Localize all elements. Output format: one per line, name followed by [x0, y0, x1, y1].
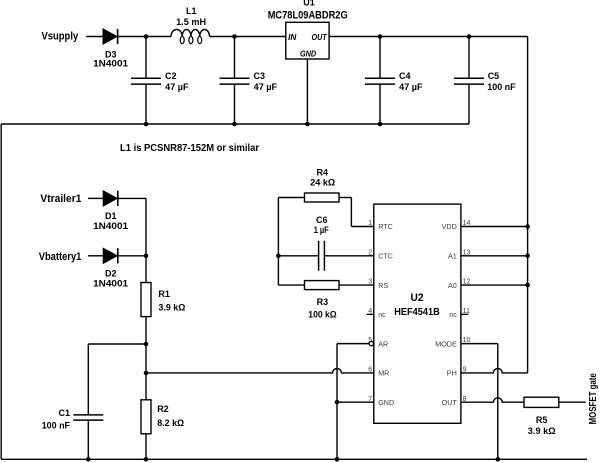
label C3 47 uF	[254, 71, 278, 92]
inductor L1	[171, 29, 210, 43]
svg-text:L1 is PCSNR87-152M or similar: L1 is PCSNR87-152M or similar	[120, 142, 259, 154]
junction U1 GND to ground rail	[305, 122, 310, 127]
junction MODE vertical to ground rail	[496, 457, 501, 462]
wire Vtrailer1 to D1	[88, 197, 103, 199]
wire C1 top horizontal	[88, 343, 146, 345]
resistor R5	[524, 397, 559, 407]
wire OUT pin 8 to R5 with hop	[461, 398, 524, 402]
svg-text:AR: AR	[378, 339, 388, 348]
wire AR vertical down to ground rail	[336, 344, 338, 460]
voltage regulator U1 body	[286, 22, 329, 59]
wire left vertical to R3	[278, 284, 304, 286]
label C6 1 uF	[314, 215, 329, 235]
junction VDD/right rail	[525, 224, 530, 229]
svg-text:R4: R4	[317, 167, 329, 177]
svg-text:C5: C5	[488, 71, 500, 81]
junction A1/right rail	[525, 253, 530, 258]
svg-text:L1: L1	[186, 6, 197, 16]
junction A0/right rail	[525, 283, 530, 288]
wire D2 cathode to junction	[118, 255, 146, 257]
diode D2	[103, 248, 118, 263]
wire node D to right corner	[469, 36, 528, 38]
svg-text:U1: U1	[303, 0, 315, 8]
label R1 3.9 kOhm	[158, 289, 185, 312]
svg-text:R5: R5	[536, 415, 548, 425]
label R4 24 kOhm	[310, 167, 335, 187]
svg-text:2: 2	[368, 249, 372, 256]
wire node C to node D	[380, 36, 469, 38]
junction D1/D2 node	[144, 254, 149, 259]
capacitor C5	[454, 37, 484, 125]
svg-text:PH: PH	[447, 369, 457, 378]
junction node B (L1/C3/U1 IN)	[232, 34, 237, 39]
capacitor C6	[319, 241, 325, 271]
svg-text:1N4001: 1N4001	[93, 278, 128, 288]
svg-text:1N4001: 1N4001	[93, 59, 128, 69]
wire Vbattery1 to D2	[88, 255, 103, 257]
junction C3 to ground rail	[232, 122, 237, 127]
svg-text:RS: RS	[378, 281, 388, 290]
svg-text:47 µF: 47 µF	[254, 82, 278, 92]
svg-text:100 nF: 100 nF	[42, 420, 71, 430]
resistor R2	[141, 400, 151, 434]
svg-text:OUT: OUT	[312, 33, 328, 42]
svg-text:nc: nc	[378, 310, 386, 319]
junction C4 to ground rail	[378, 122, 383, 127]
diode D1	[103, 191, 118, 206]
resistor R4	[305, 193, 340, 202]
junction AR/GND wire	[335, 400, 340, 405]
svg-text:IN: IN	[288, 33, 296, 42]
label D2 1N4001	[93, 269, 128, 289]
wire GND pin 7	[337, 401, 374, 403]
junction C1 to ground rail	[86, 457, 91, 462]
svg-text:C1: C1	[58, 408, 70, 418]
ground rail left vertical	[0, 124, 2, 459]
capacitor C3	[220, 37, 250, 125]
resistor R3	[305, 281, 340, 290]
wire U1 OUT to node C	[329, 36, 380, 38]
wire R2 bottom to ground rail	[145, 434, 147, 460]
svg-text:OUT: OUT	[442, 398, 458, 407]
label C5 100 nF	[487, 71, 516, 92]
wire PH pin 9 to right rail with hop	[461, 369, 528, 373]
svg-text:100 nF: 100 nF	[487, 82, 516, 92]
svg-text:C3: C3	[254, 71, 266, 81]
ground rail upper horizontal	[1, 123, 469, 125]
svg-text:1N4001: 1N4001	[93, 221, 128, 231]
nc stub pin 11	[461, 313, 468, 315]
wire L1 to node B	[210, 36, 235, 38]
wire node A to L1	[146, 36, 171, 38]
junction R1/R2/MR node	[144, 371, 149, 376]
svg-text:MOSFET gate: MOSFET gate	[588, 373, 599, 425]
junction R1/C1 node	[144, 342, 149, 347]
svg-text:Vtrailer1: Vtrailer1	[40, 193, 81, 205]
svg-text:Vsupply: Vsupply	[42, 30, 79, 42]
label L1 1.5 mH	[176, 6, 206, 27]
label D3 1N4001	[93, 50, 128, 69]
svg-text:R2: R2	[157, 404, 169, 414]
svg-text:CTC: CTC	[378, 251, 393, 260]
svg-text:1 µF: 1 µF	[314, 225, 329, 235]
capacitor C1	[73, 344, 103, 459]
wire R4 left vertical	[277, 198, 279, 286]
junction CTC tee on left vertical	[276, 253, 281, 258]
wire R4 corner down to RTC	[350, 198, 352, 227]
wire C6 to CTC pin 2	[324, 255, 373, 257]
svg-text:HEF4541B: HEF4541B	[394, 306, 440, 318]
svg-text:GND: GND	[378, 398, 394, 407]
junction node D (C5 top)	[467, 34, 472, 39]
svg-text:D1: D1	[105, 211, 117, 221]
capacitor C2	[131, 37, 161, 125]
wire R5 to MOSFET gate terminal	[559, 401, 586, 403]
diode D3	[103, 29, 118, 44]
svg-text:C2: C2	[165, 71, 177, 81]
IC U2 body	[374, 204, 461, 423]
label R5 3.9 kOhm	[528, 415, 556, 436]
label R3 100 kOhm	[308, 297, 336, 320]
svg-text:C4: C4	[399, 71, 411, 81]
svg-text:3.9 kΩ: 3.9 kΩ	[158, 302, 185, 312]
label C2 47 uF	[165, 71, 189, 92]
svg-text:8.2 kΩ: 8.2 kΩ	[157, 418, 184, 428]
wire C1 tee down to MR tee	[145, 344, 147, 373]
junction node A (D3/C2/L1)	[144, 34, 149, 39]
svg-text:3: 3	[368, 279, 372, 286]
svg-text:1.5 mH: 1.5 mH	[176, 17, 206, 27]
label D1 1N4001	[93, 211, 128, 231]
label C4 47 uF	[399, 71, 423, 92]
wire MR pin 6 from R1/R2 node with hop	[146, 368, 374, 372]
wire MODE vertical down to ground rail	[497, 344, 499, 460]
wire MODE pin 10 to corner	[461, 343, 498, 345]
svg-text:100 kΩ: 100 kΩ	[308, 310, 336, 320]
capacitor C4	[365, 37, 395, 125]
svg-text:VDD: VDD	[442, 222, 457, 231]
wire A0 pin 12 to right rail	[461, 284, 528, 286]
wire R1 bottom to C1 tee	[145, 317, 147, 344]
svg-text:1: 1	[368, 220, 372, 227]
svg-text:MC78L09ABDR2G: MC78L09ABDR2G	[268, 9, 348, 21]
wire CTC left segment	[278, 255, 318, 257]
wire MR tee down to R2	[145, 373, 147, 400]
svg-text:47 µF: 47 µF	[399, 82, 423, 92]
wire D1 corner down to Vbattery junction	[145, 198, 147, 255]
wire A1 pin 13 to right rail	[461, 255, 528, 257]
junction R2 to ground rail	[144, 457, 149, 462]
svg-text:MR: MR	[378, 369, 389, 378]
wire D1 cathode to corner	[118, 197, 146, 199]
ground rail bottom horizontal	[1, 458, 587, 460]
wire Vsupply to D3 anode	[86, 36, 103, 38]
svg-text:A0: A0	[448, 281, 457, 290]
junction node C (C4 top)	[378, 34, 383, 39]
wire D3 cathode to node A	[118, 36, 146, 38]
svg-text:R1: R1	[158, 289, 170, 299]
svg-text:D2: D2	[105, 269, 117, 279]
svg-text:A1: A1	[448, 251, 457, 260]
wire left vertical to R4	[278, 197, 304, 199]
svg-text:RTC: RTC	[378, 222, 393, 231]
wire VDD pin 14 to right rail	[461, 226, 528, 228]
label R2 8.2 kOhm	[157, 404, 184, 428]
wire R3 to RS pin 3	[339, 284, 374, 286]
wire right vertical 9V rail down to PH	[527, 37, 529, 373]
svg-text:C6: C6	[316, 215, 328, 225]
wire node B to U1 IN	[235, 36, 286, 38]
junction AR vertical to ground rail	[335, 457, 340, 462]
label C1 100 nF	[42, 408, 71, 430]
svg-text:MODE: MODE	[435, 339, 457, 348]
svg-text:47 µF: 47 µF	[165, 82, 189, 92]
resistor R1	[141, 283, 151, 317]
nc stub pin 4	[367, 313, 374, 315]
svg-text:U2: U2	[411, 292, 424, 304]
svg-text:GND: GND	[300, 49, 316, 58]
svg-text:R3: R3	[317, 297, 329, 307]
wire D1/D2 node down to R1	[145, 256, 147, 283]
junction C2 to ground rail	[144, 122, 149, 127]
wire AR pin 5 with bubble	[337, 341, 373, 345]
svg-text:24 kΩ: 24 kΩ	[310, 177, 335, 187]
svg-text:Vbattery1: Vbattery1	[39, 251, 82, 263]
wire R4 right to corner	[339, 197, 351, 199]
svg-text:3.9 kΩ: 3.9 kΩ	[528, 426, 556, 436]
wire to RTC pin 1	[351, 226, 373, 228]
svg-text:nc: nc	[449, 310, 457, 319]
wire U1 GND pin down	[306, 59, 308, 124]
